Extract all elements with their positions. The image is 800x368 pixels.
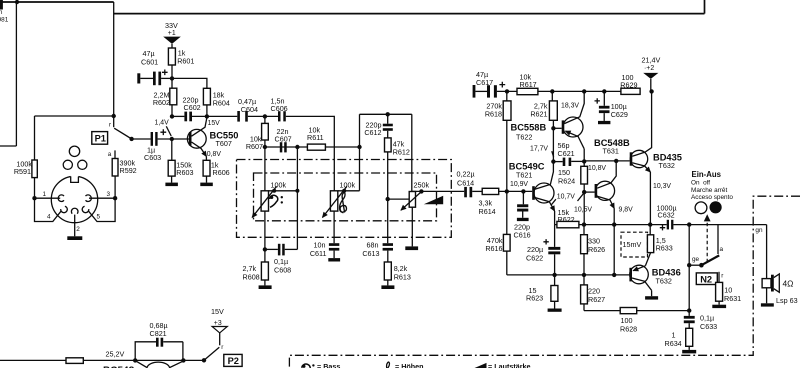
capacitor C601 47u [137,49,172,85]
svg-text:R612: R612 [393,148,410,157]
svg-text:R631: R631 [724,294,741,303]
svg-text:C622: C622 [526,253,543,262]
capacitor C604 0,47u [237,97,278,121]
svg-text:1: 1 [43,191,47,198]
svg-text:N2: N2 [700,274,712,284]
junction C821 right [181,358,185,362]
svg-text:10n: 10n [314,240,326,249]
svg-text:9,8V: 9,8V [619,207,634,214]
capacitor C607 22n [265,127,308,153]
mech link arrow [706,222,708,262]
svg-text:= Lautstärke: = Lautstärke [488,362,531,368]
junction pot1 stub end [295,189,299,193]
wire pot3 bottom [411,207,413,246]
svg-text:10,7V: 10,7V [557,193,575,200]
svg-text:C607: C607 [275,135,292,144]
legend bass clef [302,364,315,368]
svg-text:T632: T632 [656,277,672,286]
switch P2 blade [204,347,219,360]
wire pot1 bottom [264,211,266,249]
resistor R623 15 [526,275,558,302]
svg-text:C612: C612 [364,128,381,137]
junction input split [15,0,19,4]
svg-text:Lsp 63: Lsp 63 [776,296,798,305]
junction output node emitter [612,222,616,226]
pin 4 contact [61,206,68,212]
junction C633 output [687,222,691,226]
ground R606 [206,176,208,183]
capacitor C606 1,5n [271,97,335,191]
svg-text:C614: C614 [457,178,474,187]
pin 3 contact [86,195,92,202]
resistor R614 3,3k [479,188,533,216]
wire to R591 [35,116,114,160]
wire input top [0,1,114,3]
svg-text:C632: C632 [658,211,675,220]
svg-text:R626: R626 [588,245,605,254]
capacitor C612 220p [364,114,392,138]
supply 21,4V +2 [642,56,661,92]
ground C611 [328,258,340,261]
svg-text:10,5V: 10,5V [574,207,592,214]
svg-text:R622: R622 [558,215,575,224]
inductor bottom [136,361,183,367]
svg-text:R608: R608 [243,272,260,281]
svg-text:C601: C601 [141,58,158,67]
svg-text:= Bass: = Bass [317,362,340,368]
svg-text:R592: R592 [120,166,137,175]
svg-text:15V: 15V [211,307,224,316]
junction C621 R624 node [582,159,586,163]
resistor R592 390k [112,159,136,199]
resistor bottom left [66,358,83,364]
wire pin1 [35,197,61,199]
wire BD435 base [584,160,630,162]
terminal C617 input [473,85,476,98]
ground C616 [517,218,529,221]
svg-text:17,7V: 17,7V [530,145,548,152]
svg-text:C611: C611 [310,249,327,258]
svg-text:C821: C821 [150,329,167,338]
pin 5 contact [82,206,89,212]
ground R603 [171,176,173,183]
ground R613 [387,280,389,285]
svg-text:10,8V: 10,8V [588,165,606,172]
svg-text:a: a [108,151,112,158]
svg-text:68n: 68n [367,240,379,249]
svg-text:R607: R607 [246,142,263,151]
symbol treble clef [340,193,347,213]
potentiometer volume 250k [401,181,464,211]
resistor R604 18k [172,78,230,116]
junction R633 output [648,222,652,226]
ground speaker [761,303,774,306]
measure box 15mV [621,232,648,257]
svg-text:981: 981 [0,17,9,24]
svg-text:18,3V: 18,3V [561,103,579,110]
junction pot2 wiper [342,189,346,193]
resistor R611 10k [307,126,360,151]
svg-text:4Ω: 4Ω [783,279,794,289]
svg-text:T621: T621 [516,171,532,180]
svg-text:Ein-Aus: Ein-Aus [692,170,722,179]
svg-text:21,4V: 21,4V [642,56,661,65]
legend treble clef [384,362,392,368]
potentiometer bass 100k [252,147,297,217]
svg-text:T631: T631 [603,146,619,155]
resistor R621 2,7k [530,91,557,128]
junction C612 top [386,112,390,116]
wire pin5 loop [88,198,115,221]
svg-text:1,4V: 1,4V [155,120,170,127]
svg-text:T622: T622 [516,133,532,142]
resistor R626 330 [581,225,606,275]
junction at switch feed [112,114,116,118]
junction R626 R627 [582,273,586,277]
svg-text:Marche arrêt: Marche arrêt [691,187,727,194]
junction C608 left [263,247,267,251]
svg-text:R601: R601 [177,57,194,66]
DIN connector P1 socket [51,146,97,223]
transistor T632 BD436 [629,253,680,297]
svg-text:R616: R616 [485,244,502,253]
svg-text:R611: R611 [307,133,324,142]
svg-text:5: 5 [97,213,101,220]
switch N2 contact a [717,225,719,254]
resistor R601 1k [168,48,194,88]
svg-text:C602: C602 [184,103,201,112]
svg-text:C608: C608 [274,266,291,275]
transistor T622 BC558B [511,91,585,148]
junction BC549C collector tap [551,159,555,163]
wire pin2 to ground [74,215,76,237]
junction BC558B base [551,126,555,130]
supply 33V +1 [163,21,181,48]
label P1 [92,132,108,145]
capacitor C608 0,1u [265,244,298,275]
capacitor C603 1u [144,129,166,162]
svg-text:+3: +3 [214,320,222,327]
svg-text:C629: C629 [611,110,628,119]
junction R618 R616 node [505,189,509,193]
tone pots inner box [254,173,437,221]
switch P1 contact r [113,116,115,127]
wire pin4 loop [35,198,62,221]
svg-text:R614: R614 [479,207,496,216]
svg-text:gn: gn [755,227,763,234]
capacitor C821 0,68u [135,321,183,361]
switch N2 blade [701,255,719,265]
svg-text:On off: On off [691,180,710,187]
junction R621 top [550,89,554,93]
junction T631 collector [614,159,618,163]
switch indicator circles [695,202,707,214]
svg-text:C613: C613 [362,249,379,258]
ground C629 [598,121,610,124]
junction C622 feedback [552,273,556,277]
speaker Lsp 4ohm [762,225,797,305]
svg-text:0,22µ: 0,22µ [457,170,475,179]
junction C617 R617 [505,89,509,93]
svg-text:P2: P2 [228,356,239,366]
wire tap to pot3 wiper [388,198,410,200]
resistor R591 100k [14,160,37,199]
junction BC558B collector [582,89,586,93]
resistor R608 2,7k [243,249,269,281]
svg-text:R618: R618 [485,109,502,118]
svg-text:= Höhen: = Höhen [395,362,424,368]
junction R626 output [582,222,586,226]
wire N2 pole [689,264,701,266]
resistor R603 150k [168,139,193,177]
capacitor C611 10n [310,240,339,258]
ground R634 [688,346,690,350]
svg-text:R591: R591 [14,167,31,176]
transistor T631 BC548B [594,138,630,275]
capacitor C621 56p [553,141,584,166]
svg-text:C606: C606 [271,104,288,113]
wire wiper column [296,147,298,249]
junction pin1 [32,196,36,200]
svg-text:15mV: 15mV [623,240,642,249]
svg-text:3: 3 [107,191,111,198]
ground R608 [264,280,266,285]
svg-text:C617: C617 [476,78,493,87]
svg-text:·+2: ·+2 [644,65,654,72]
svg-text:R602: R602 [153,98,170,107]
svg-text:R606: R606 [213,168,230,177]
pin 2 contact [71,208,78,213]
svg-text:15V: 15V [208,120,221,127]
svg-text:BC558B: BC558B [511,123,547,133]
resistor R602 2,2M [153,88,177,116]
resistor R627 220 [581,275,690,311]
junction R607 top [263,114,267,118]
ground R623 [554,301,556,308]
svg-text:R627: R627 [588,295,605,304]
resistor R607 10k [246,116,268,150]
transistor T607 BC550 [187,118,238,161]
junction R607 bottom [263,145,267,149]
svg-text:C616: C616 [514,231,531,240]
junction C601 node [170,76,174,80]
svg-text:T632: T632 [659,161,675,170]
junction R611 right [357,145,361,149]
wire BC558B emitter node [583,149,585,167]
svg-text:T607: T607 [216,139,232,148]
label N2 [696,273,717,285]
svg-text:a: a [720,246,724,253]
switch P1 contact a [114,150,116,158]
svg-text:R604: R604 [213,98,230,107]
svg-text:R629: R629 [620,80,637,89]
svg-text:C621: C621 [558,149,575,158]
resistor R616 470k [485,191,629,275]
capacitor C616 220p [514,191,531,239]
svg-text:R624: R624 [558,176,575,185]
symbol volume wedge [424,196,443,205]
transistor T621 BC549C [509,128,555,224]
junction BD435 collector [649,89,653,93]
switch N2 contact r [718,272,720,283]
wire bridge over tone box [360,114,412,191]
junction T631 emitter col [612,273,616,277]
wire pin3 [89,197,115,199]
junction pot3 top [419,189,423,193]
resistor R633 1,5 [647,225,672,253]
svg-text:ge: ge [692,256,700,263]
junction wiper tap pot3 [386,197,390,201]
pin 1 contact [58,195,64,202]
svg-text:R617: R617 [520,80,537,89]
wire top rail [114,0,705,14]
svg-text:P1: P1 [95,134,106,144]
svg-text:R628: R628 [620,324,637,333]
resistor R634 1 [665,328,693,348]
legend volume wedge [472,363,487,368]
wire C603 to base [158,138,190,140]
resistor R622 15k [557,208,579,228]
resistor R631 10 [716,282,742,303]
capacitor C617 47u [475,70,517,97]
junction C607 R611 [295,145,299,149]
capacitor C629 100u [595,91,628,121]
junction T631 base node [582,190,586,194]
input terminal stub 81 [0,0,3,10]
transistor T632 BD435 [630,91,682,224]
resistor R613 8,2k [384,262,411,281]
wire output rail [555,224,667,226]
junction R602 bottom [170,114,174,118]
capacitor C622 220u [526,225,560,275]
svg-text:Acceso spento: Acceso spento [691,194,733,201]
svg-text:R634: R634 [665,339,682,348]
svg-text:4: 4 [47,213,51,220]
resistor R612 47k [385,138,410,243]
svg-text:250k: 250k [414,181,430,190]
svg-text:10,3V: 10,3V [653,183,671,190]
svg-text:C604: C604 [241,105,258,114]
ground R631 [718,301,720,305]
label Ein-Aus [691,170,733,201]
supply 15V +3 [211,307,227,345]
svg-text:R621: R621 [530,109,547,118]
svg-text:C633: C633 [700,322,717,331]
ground DIN pin2 [67,236,82,240]
junction pin3 [113,196,117,200]
resistor R617 10k [517,72,621,94]
resistor R628 100 [620,308,637,334]
svg-text:R633: R633 [656,244,673,253]
resistor R606 1k [203,160,230,177]
svg-text:10,9V: 10,9V [510,181,528,188]
wire input down to switch [113,2,115,116]
junction pot1 wiper [272,189,276,193]
svg-text:R623: R623 [526,293,543,302]
module dash-dot border [289,196,800,368]
svg-text:+1: +1 [168,30,176,37]
capacitor C614 0,22u [457,170,483,198]
svg-text:C603: C603 [144,153,161,162]
wire blade to C603 [132,138,151,140]
wire branch to other channel [0,2,16,146]
capacitor C633 0,1u [684,225,717,331]
ground BD436 [645,296,658,299]
wire base T631 [584,191,594,193]
capacitor C632 1000u [657,204,767,231]
ground pot3 [405,246,418,250]
potentiometer treble 100k [323,147,360,217]
svg-text:100k: 100k [271,180,287,189]
junction C629 top [602,89,606,93]
svg-text:0,8V: 0,8V [207,151,222,158]
capacitor C602 220p [172,96,237,122]
resistor R624 150 [558,166,588,224]
label P2 [224,354,242,366]
svg-text:R603: R603 [176,168,193,177]
junction R628 right [687,308,691,312]
wire pot2 bottom [333,211,335,243]
wire base BC558B [553,127,561,129]
svg-text:100k: 100k [340,180,356,189]
svg-text:R613: R613 [394,272,411,281]
wire bottom 25,2V rail [0,359,204,361]
resistor R618 270k [485,91,511,191]
junction C616 node [521,189,525,193]
junction base node [170,137,174,141]
svg-text:25,2V: 25,2V [106,350,125,359]
symbol bass clef [270,195,283,207]
svg-text:2: 2 [76,226,80,233]
capacitor C613 68n [362,240,393,262]
svg-text:33V: 33V [165,21,178,30]
junction collector node [205,114,209,118]
junction C821 left [133,358,137,362]
resistor R629 100 [620,73,640,94]
tone module outer box [237,160,452,238]
switch P1 blade [114,128,131,139]
